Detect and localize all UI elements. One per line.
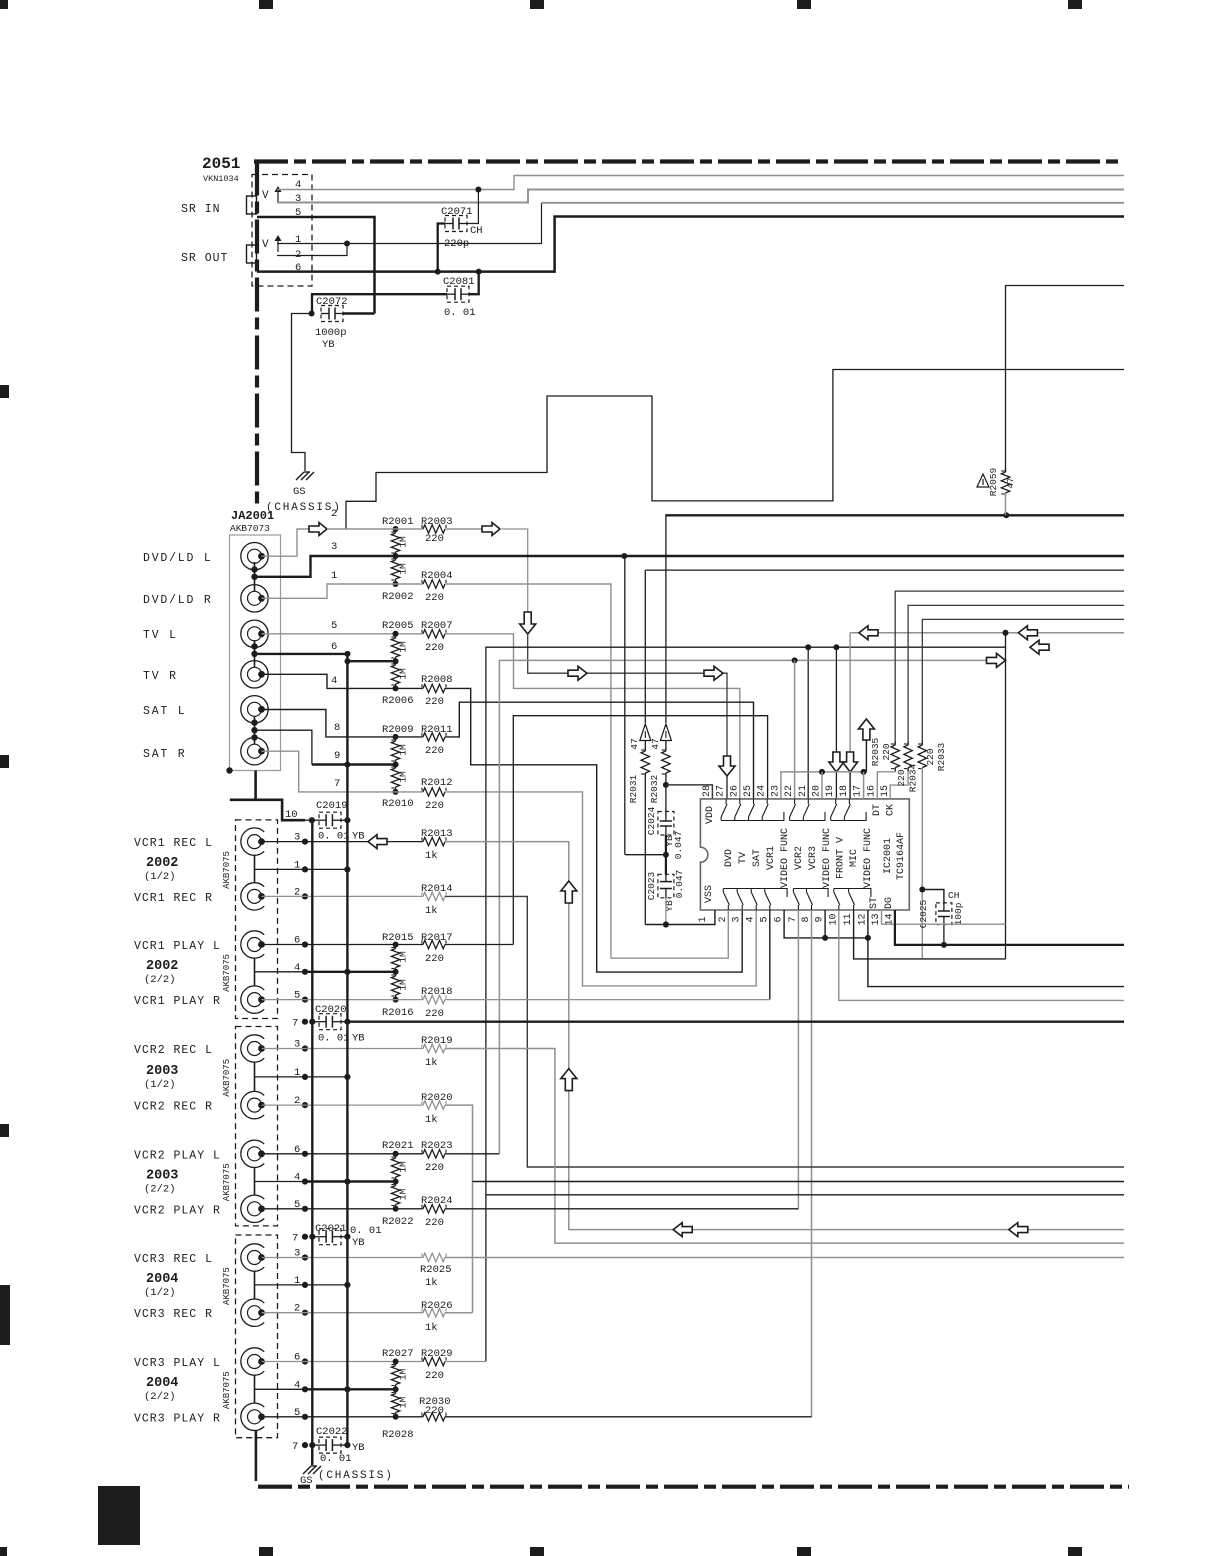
- junction pin6/C2081: [476, 269, 482, 275]
- svg-text:220p: 220p: [444, 238, 469, 250]
- svg-text:C2024: C2024: [646, 806, 657, 835]
- wire ground bus A: [311, 820, 313, 1465]
- svg-text:CK: CK: [886, 804, 897, 816]
- svg-text:20: 20: [812, 785, 823, 797]
- svg-text:AKB7075: AKB7075: [222, 954, 232, 992]
- svg-text:VCR1 REC L: VCR1 REC L: [134, 837, 213, 850]
- wire VCR1 PLAY R to pin5: [445, 999, 770, 1001]
- wire C2071 right to pin4: [467, 190, 478, 224]
- svg-text:YB: YB: [352, 1237, 365, 1249]
- wire R2059 down to bus: [1005, 493, 1007, 515]
- svg-text:0. 01: 0. 01: [318, 831, 350, 843]
- wire pin27 stub: [726, 776, 728, 799]
- svg-text:19: 19: [825, 785, 836, 797]
- connector 2051 dashed box: [252, 175, 312, 287]
- wire tap to DVD bus: [625, 854, 666, 856]
- svg-text:SAT R: SAT R: [143, 748, 187, 761]
- svg-text:5: 5: [759, 916, 770, 922]
- arrow right VCR2 feed: [987, 653, 1006, 667]
- registration marks: [259, 0, 273, 9]
- wire row6 jog: [348, 660, 396, 662]
- svg-text:1M: 1M: [398, 979, 409, 991]
- svg-text:IC2001: IC2001: [883, 838, 894, 874]
- IC2001 internal switch symbols bottom: [727, 905, 729, 910]
- svg-text:47: 47: [629, 738, 640, 749]
- sleeve link 2004 rec: [254, 1272, 256, 1299]
- svg-text:VCR3: VCR3: [808, 846, 819, 870]
- svg-text:YB: YB: [352, 1442, 365, 1454]
- wire DVD/LD L tip to row2: [262, 529, 310, 556]
- jack VCR2 REC R: [241, 1091, 264, 1118]
- arrow row DVD L before pin27: [704, 666, 723, 680]
- resistor R2035 220: [895, 591, 1124, 745]
- wire row7 SAT R to pin4 riser: [445, 792, 756, 986]
- svg-text:TV R: TV R: [143, 670, 178, 683]
- wire rec sleeve row 2002: [255, 868, 348, 870]
- svg-text:MIC: MIC: [849, 849, 860, 867]
- svg-text:AKB7073: AKB7073: [230, 523, 270, 534]
- wire VCR1 PLAY L to riser: [445, 944, 513, 946]
- wire TV R tip row4: [262, 674, 424, 688]
- svg-text:R2006: R2006: [382, 695, 414, 707]
- svg-text:220: 220: [925, 748, 936, 765]
- junction R2059 on bus: [1003, 512, 1009, 518]
- wire DVD sleeve to bus row3: [255, 556, 1125, 577]
- wire VCR2 REC R branch row: [473, 1181, 1125, 1183]
- svg-text:25: 25: [743, 785, 754, 797]
- wire VCR3 REC L row R2025: [262, 1257, 424, 1259]
- svg-text:1M: 1M: [398, 744, 409, 756]
- svg-text:47: 47: [1005, 477, 1016, 488]
- svg-text:VIDEO FUNC: VIDEO FUNC: [863, 828, 874, 888]
- chassis ground GS top: [296, 472, 304, 480]
- svg-text:VCR2 PLAY L: VCR2 PLAY L: [134, 1149, 221, 1162]
- resistor R2002 1M: [395, 557, 397, 561]
- wire VIDEO FUNC off-page riser: [865, 740, 867, 772]
- wire pin16 DT to R2035: [877, 768, 895, 799]
- wire pin8 VCR3 PLAY R riser: [811, 910, 813, 1417]
- wire VCR2 PLAY L feed to pin22: [499, 660, 1005, 1153]
- capacitor C2072: [321, 306, 343, 322]
- page border dash-dot left: [255, 162, 259, 507]
- wire C2081 right to pin6: [469, 272, 479, 295]
- wire pin7 VCR2 PLAY R riser: [797, 910, 799, 1209]
- wire VCR2 REC R to riser: [445, 1105, 473, 1313]
- svg-text:9: 9: [815, 916, 826, 922]
- svg-text:23: 23: [770, 785, 781, 797]
- svg-text:0. 01: 0. 01: [318, 1033, 350, 1045]
- capacitor C2019 0.01: [312, 1021, 319, 1023]
- svg-text:DG: DG: [884, 897, 895, 909]
- svg-text:100p: 100p: [953, 902, 964, 925]
- junction R2005/R2006: [393, 658, 399, 664]
- svg-text:220: 220: [425, 1008, 444, 1020]
- svg-text:R2004: R2004: [421, 570, 453, 582]
- svg-text:AKB7075: AKB7075: [222, 851, 232, 889]
- svg-text:YB: YB: [352, 1033, 365, 1045]
- jack TV R: [241, 661, 268, 688]
- svg-text:3: 3: [331, 541, 337, 553]
- arrow row2 a: [309, 523, 327, 536]
- svg-text:4: 4: [746, 916, 757, 922]
- svg-text:R2021: R2021: [382, 1140, 414, 1152]
- chassis ground GS bottom: [311, 1445, 313, 1465]
- svg-text:SR IN: SR IN: [181, 203, 221, 216]
- wire rec sleeve row 2003: [255, 1076, 348, 1078]
- svg-text:TV L: TV L: [143, 629, 178, 642]
- svg-text:1M: 1M: [398, 668, 409, 680]
- junction R2009/R2010: [393, 762, 399, 768]
- svg-text:R2059: R2059: [988, 467, 999, 496]
- junction pin21: [805, 644, 811, 650]
- svg-text:(1/2): (1/2): [144, 1287, 176, 1299]
- wire VCR3 REC R row R2026: [262, 1312, 424, 1314]
- wire VCR3 PLAY L row: [262, 1361, 424, 1363]
- resistor R2028 1M: [395, 1390, 397, 1394]
- svg-text:FRONT V: FRONT V: [836, 837, 847, 879]
- svg-text:8: 8: [334, 722, 340, 734]
- resistor R2016 1M: [395, 973, 397, 977]
- svg-text:C2071: C2071: [441, 206, 473, 218]
- junction R2022 row5: [393, 1206, 399, 1212]
- junction row2 R2001: [393, 526, 399, 532]
- svg-text:R2012: R2012: [421, 777, 453, 789]
- svg-text:R2034: R2034: [908, 763, 919, 792]
- wire row4 TV R to pin3 riser: [445, 688, 742, 972]
- junction R2001/R2002 on bus: [393, 553, 399, 559]
- svg-text:2002: 2002: [146, 856, 178, 871]
- svg-text:GS: GS: [300, 1475, 313, 1487]
- wire VCR3 PLAY L feed to pin21: [486, 647, 1006, 1361]
- svg-text:10: 10: [828, 913, 839, 925]
- jack SAT L: [241, 696, 268, 723]
- wire R2033 down: [921, 768, 923, 960]
- wire rec sleeve row 2004: [255, 1284, 348, 1286]
- wire VCR1 PLAY L feed to pin24: [513, 716, 767, 945]
- wire JA2001 sleeve to pin10: [254, 771, 257, 800]
- svg-text:1k: 1k: [425, 1057, 438, 1069]
- arrow row DVD L mid: [568, 666, 587, 680]
- junction C2023 VSS: [663, 922, 669, 928]
- svg-text:1M: 1M: [398, 1369, 409, 1381]
- svg-text:(1/2): (1/2): [144, 1079, 176, 1091]
- wire VCR1 REC L row R2013: [262, 841, 424, 843]
- svg-text:VCR3 REC L: VCR3 REC L: [134, 1253, 213, 1266]
- resistor R2006 1M: [395, 662, 397, 666]
- svg-text:1M: 1M: [398, 1161, 409, 1173]
- wire FRONT V to pin19: [835, 647, 837, 752]
- sleeve link TV jacks: [254, 640, 256, 667]
- wire VIDEO FUNC bottom net: [784, 910, 868, 938]
- svg-text:VCR2: VCR2: [794, 846, 805, 870]
- svg-text:VCR3 PLAY L: VCR3 PLAY L: [134, 1357, 221, 1370]
- jack VCR2 REC L: [241, 1035, 264, 1062]
- resistor R2022 1M: [395, 1182, 397, 1186]
- resistor R2025 1k: [423, 1253, 445, 1261]
- wire TV L tip row5: [262, 633, 424, 635]
- svg-text:R2027: R2027: [382, 1348, 414, 1360]
- svg-text:1k: 1k: [425, 850, 438, 862]
- sleeve link 2002 rec: [254, 856, 256, 883]
- wire C2071 left to pin6: [438, 224, 445, 272]
- svg-text:SR OUT: SR OUT: [181, 252, 228, 265]
- junction R2016 row5: [393, 997, 399, 1003]
- junction row9 bus: [344, 762, 350, 768]
- svg-text:YB: YB: [322, 339, 335, 351]
- svg-text:1M: 1M: [398, 563, 409, 575]
- svg-text:220: 220: [881, 743, 892, 760]
- arrow left MIC b: [1018, 626, 1037, 640]
- wire play sleeve row 2002: [255, 971, 306, 973]
- svg-text:220: 220: [425, 800, 444, 812]
- svg-text:0. 01: 0. 01: [350, 1225, 382, 1237]
- wire staircase DVD/LD L to page right: [346, 370, 1124, 530]
- svg-text:V: V: [262, 190, 269, 202]
- junction R2005 row5: [393, 631, 399, 637]
- wire VCR3 sleeve to border: [255, 1431, 258, 1482]
- SR IN jack: [247, 196, 257, 214]
- svg-text:R2022: R2022: [382, 1216, 414, 1228]
- SR OUT jack: [247, 245, 257, 263]
- svg-text:15: 15: [880, 785, 891, 797]
- svg-text:VCR2 REC L: VCR2 REC L: [134, 1044, 213, 1057]
- wire VCR1 REC R to riser: [445, 896, 1124, 1167]
- svg-text:R2002: R2002: [382, 591, 414, 603]
- svg-text:C2022: C2022: [316, 1426, 348, 1438]
- arrow left on REC feed row b: [1009, 1223, 1028, 1237]
- connector 2003 dashed box: [236, 1027, 278, 1226]
- svg-text:R2008: R2008: [421, 674, 453, 686]
- svg-text:1: 1: [295, 234, 301, 246]
- sleeve link SAT jacks: [254, 716, 256, 744]
- svg-text:V: V: [262, 239, 269, 251]
- wire row2 to arrow b: [445, 528, 482, 530]
- junction R2002 row1: [393, 581, 399, 587]
- svg-text:220: 220: [425, 1162, 444, 1174]
- svg-text:R2015: R2015: [382, 932, 414, 944]
- svg-text:7: 7: [788, 916, 799, 922]
- wire pin5 SR IN sleeve: [257, 217, 375, 314]
- jack VCR2 PLAY L: [241, 1140, 264, 1167]
- svg-text:(CHASSIS): (CHASSIS): [318, 1470, 394, 1482]
- wire VSS pin1: [645, 910, 715, 925]
- wire SAT L tip row8: [262, 710, 424, 737]
- svg-text:(2/2): (2/2): [144, 1391, 176, 1403]
- junction FRONT V: [833, 644, 839, 650]
- resistor R2033 220: [922, 619, 1124, 745]
- wire row5 TV L to riser: [445, 634, 740, 799]
- sleeve link 2003 play: [254, 1168, 256, 1195]
- svg-text:8: 8: [801, 916, 812, 922]
- wire C2020 bus to page right: [347, 1021, 1124, 1023]
- junction C2024/C2023 tap: [663, 852, 669, 858]
- svg-text:VCR3 PLAY R: VCR3 PLAY R: [134, 1412, 221, 1425]
- svg-text:1k: 1k: [425, 1322, 438, 1334]
- svg-text:1: 1: [698, 916, 709, 922]
- svg-text:7: 7: [292, 1233, 298, 1245]
- svg-text:VIDEO FUNC: VIDEO FUNC: [822, 828, 833, 888]
- wire SAT R tip row7: [262, 751, 424, 792]
- wire ground bus B: [346, 654, 348, 1445]
- junction VSS C2023: [663, 922, 669, 928]
- junction R2021 bus: [393, 1179, 399, 1185]
- svg-text:C2020: C2020: [315, 1004, 347, 1016]
- svg-text:VIDEO FUNC: VIDEO FUNC: [780, 828, 791, 888]
- svg-text:2051: 2051: [202, 155, 240, 173]
- svg-text:R2005: R2005: [382, 620, 414, 632]
- svg-text:7: 7: [334, 778, 340, 790]
- wire row8 to pin25: [445, 702, 754, 799]
- capacitor C2019 0.01: [319, 812, 341, 828]
- junction R2015 bus: [393, 969, 399, 975]
- wire VCR1 REC L to riser: [445, 842, 1124, 1230]
- svg-text:C2023: C2023: [646, 871, 657, 900]
- svg-text:28: 28: [702, 785, 713, 797]
- jack VCR2 PLAY R: [241, 1195, 264, 1222]
- connector 2004 dashed box: [236, 1235, 278, 1438]
- arrow up VCR1 REC L b: [561, 1069, 577, 1091]
- svg-text:12: 12: [857, 913, 868, 925]
- junction pin1/pin2: [344, 241, 350, 247]
- capacitor C2025 100p: [922, 890, 944, 903]
- svg-text:47: 47: [650, 738, 661, 749]
- svg-text:17: 17: [853, 785, 864, 797]
- svg-text:2: 2: [331, 508, 337, 520]
- resistor R2032 47: [665, 514, 667, 723]
- svg-text:DT: DT: [872, 804, 883, 816]
- svg-text:0.047: 0.047: [674, 870, 685, 899]
- svg-text:SAT L: SAT L: [143, 705, 187, 718]
- svg-text:7: 7: [292, 1441, 298, 1453]
- wire pin2 SR OUT: [277, 244, 347, 256]
- svg-text:R2025: R2025: [420, 1264, 452, 1276]
- wire C2072 left to chassis ground: [292, 314, 312, 472]
- wire row2 mid: [327, 528, 346, 530]
- junction C2072/C2081: [309, 311, 315, 317]
- wire pin11 to +B riser: [854, 910, 1006, 959]
- wire R2059 up to page right: [1006, 286, 1125, 473]
- wire VCR3 PLAY R to pin8: [445, 1416, 812, 1418]
- svg-text:2003: 2003: [146, 1064, 178, 1079]
- wire DVD L riser to pin27: [520, 612, 536, 634]
- jack VCR1 PLAY L: [241, 931, 264, 958]
- jack TV L: [241, 620, 268, 647]
- wire pin14 DG to page right: [895, 910, 1124, 945]
- svg-text:(2/2): (2/2): [144, 1183, 176, 1195]
- svg-text:R2016: R2016: [382, 1007, 414, 1019]
- svg-text:220: 220: [425, 696, 444, 708]
- wire VCR3 PLAY L branch row: [486, 1194, 1124, 1196]
- wire VCR2 PLAY R row: [262, 1208, 424, 1210]
- wire VCR2 PLAY L to riser: [445, 1153, 499, 1155]
- svg-text:6: 6: [331, 641, 337, 653]
- capacitor C2071: [445, 216, 467, 232]
- svg-text:R2010: R2010: [382, 798, 414, 810]
- pin 10 terminal: [309, 817, 315, 823]
- svg-text:VCR1 PLAY L: VCR1 PLAY L: [134, 940, 221, 953]
- junction JA2001 box corner: [226, 767, 232, 773]
- arrow up VIDEO FUNC off-page: [858, 719, 874, 740]
- arrow row2 b: [482, 523, 500, 536]
- svg-text:VCR1 PLAY R: VCR1 PLAY R: [134, 995, 221, 1008]
- wire play sleeve row 2003: [255, 1181, 306, 1183]
- capacitor C2022 0.01: [312, 1444, 319, 1446]
- wire row2 to riser: [500, 529, 528, 612]
- arrow left MIC a: [859, 626, 878, 640]
- junction pin22: [792, 657, 798, 663]
- svg-text:1k: 1k: [425, 1114, 438, 1126]
- svg-text:C2021: C2021: [315, 1223, 347, 1235]
- svg-text:16: 16: [866, 785, 877, 797]
- svg-text:220: 220: [425, 642, 444, 654]
- wire MIC to pin18: [849, 633, 851, 752]
- IC2001 internal switch symbols top: [725, 799, 727, 804]
- junction R2032 pin28: [663, 782, 669, 788]
- svg-text:C2072: C2072: [316, 296, 348, 308]
- svg-text:13: 13: [871, 913, 882, 925]
- svg-text:TV: TV: [738, 852, 749, 864]
- svg-text:2004: 2004: [146, 1376, 178, 1391]
- wire pin13 ST: [882, 910, 1006, 924]
- wire VCR2 REC L row R2019: [262, 1048, 424, 1050]
- svg-text:3: 3: [732, 916, 743, 922]
- wire pin2 DVD R: [611, 910, 728, 958]
- wire riser MIC to pin11 line: [1005, 633, 1007, 959]
- wire VCR3 PLAY R row: [262, 1416, 424, 1418]
- svg-text:GS: GS: [293, 486, 306, 498]
- svg-text:DVD/LD R: DVD/LD R: [143, 594, 213, 607]
- resistor R2059 47: [977, 474, 989, 487]
- junction pin4/C2071: [475, 187, 481, 193]
- svg-text:CH: CH: [948, 890, 959, 901]
- wire VDD pin28: [666, 785, 713, 799]
- wire R2031 to VSS: [644, 773, 646, 925]
- svg-text:DVD/LD L: DVD/LD L: [143, 552, 213, 565]
- svg-text:TC9164AF: TC9164AF: [896, 832, 907, 880]
- jack VCR1 REC R: [241, 883, 264, 910]
- jack VCR3 REC R: [241, 1299, 264, 1326]
- svg-text:C2081: C2081: [443, 276, 475, 288]
- svg-text:1M: 1M: [398, 771, 409, 783]
- wire pin3 SR IN: [277, 190, 1124, 203]
- svg-text:VDD: VDD: [705, 806, 716, 824]
- svg-text:6: 6: [774, 916, 785, 922]
- arrow left on pin21 line: [1030, 640, 1049, 654]
- svg-text:2003: 2003: [146, 1168, 178, 1183]
- svg-text:ST: ST: [869, 897, 880, 909]
- wire VCR1 REC R row R2014: [262, 895, 424, 897]
- arrow up VCR1 REC L a: [561, 881, 577, 903]
- capacitor C2024 0.047: [665, 773, 667, 812]
- junction MIC line riser: [1003, 630, 1009, 636]
- svg-text:VCR3 REC R: VCR3 REC R: [134, 1308, 213, 1321]
- svg-text:7: 7: [292, 1018, 298, 1030]
- svg-text:VCR2 PLAY R: VCR2 PLAY R: [134, 1204, 221, 1217]
- arrow into pin27: [719, 756, 735, 776]
- page border dash-dot top: [254, 159, 1124, 163]
- wire play sleeve row 2004: [255, 1388, 306, 1390]
- sleeve link DVD jacks: [254, 562, 256, 591]
- op-amp IC2001 TC9164AF body: [700, 799, 909, 910]
- wire SAT sleeve row9: [255, 730, 312, 764]
- junction R2010 row7: [393, 789, 399, 795]
- svg-text:1M: 1M: [398, 536, 409, 548]
- svg-text:R2032: R2032: [649, 774, 660, 803]
- svg-text:220: 220: [425, 1217, 444, 1229]
- svg-text:220: 220: [425, 953, 444, 965]
- wire bus +B to page right: [666, 514, 1124, 516]
- svg-text:SAT: SAT: [752, 849, 763, 867]
